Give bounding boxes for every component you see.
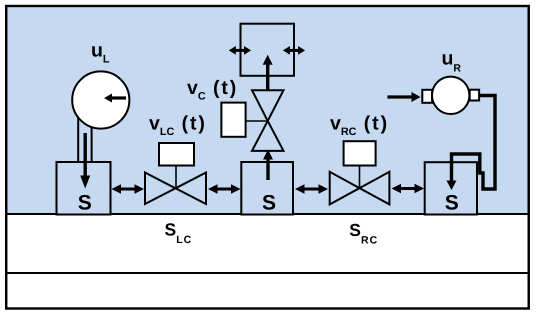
valve vC actuator box [221, 103, 245, 137]
center tank S [241, 162, 293, 215]
arrow inside pump uL [104, 94, 126, 103]
inlet arrow into pump uR [387, 92, 420, 102]
white band 2 (bottom row) [6, 273, 529, 309]
double arrow left (overflow box) [229, 46, 251, 55]
valve vLC stem [175, 166, 177, 189]
valve vLC body (bowtie) [145, 173, 206, 205]
svg-text:S: S [445, 192, 459, 215]
pump circle uR [432, 77, 469, 114]
overflow box (top) [241, 24, 295, 76]
thick pipe from pump uR to right tank [452, 96, 496, 190]
double arrow: valve vRC - right tank [392, 184, 425, 194]
blue region (top band) [6, 6, 529, 214]
valve vC stem [246, 120, 268, 122]
svg-text:vLC (t): vLC (t) [149, 113, 207, 138]
svg-text:vRC (t): vRC (t) [330, 113, 389, 138]
pump circle uL [72, 71, 129, 128]
white band 1 (S_LC / S_RC row) [6, 214, 529, 273]
valve vRC actuator box [344, 141, 376, 165]
double arrow: valve vLC - center tank [208, 184, 241, 194]
flow arrow into left tank [80, 133, 90, 189]
up arrow: valve vC into overflow box [263, 55, 273, 90]
up arrow: center tank into valve vC [263, 150, 273, 181]
arrowhead into right tank [447, 181, 457, 191]
svg-text:S: S [78, 192, 92, 215]
right tank S [425, 162, 477, 214]
pipe (double line) from pump uL to left tank [78, 116, 91, 162]
pump uR right port [470, 90, 479, 101]
valve vLC actuator box [159, 143, 194, 166]
double arrow right (overflow box) [283, 46, 305, 55]
valve vC body (vertical bowtie) [252, 90, 284, 151]
double arrow: center tank - valve vRC [295, 184, 328, 194]
double arrow: left tank - valve vLC [112, 184, 145, 194]
svg-text:S: S [262, 191, 276, 214]
svg-text:vC (t): vC (t) [187, 77, 238, 102]
valve vRC stem [359, 166, 361, 189]
left tank S [57, 162, 111, 215]
pump uR left port [422, 90, 432, 103]
valve vRC body (bowtie) [330, 172, 390, 205]
